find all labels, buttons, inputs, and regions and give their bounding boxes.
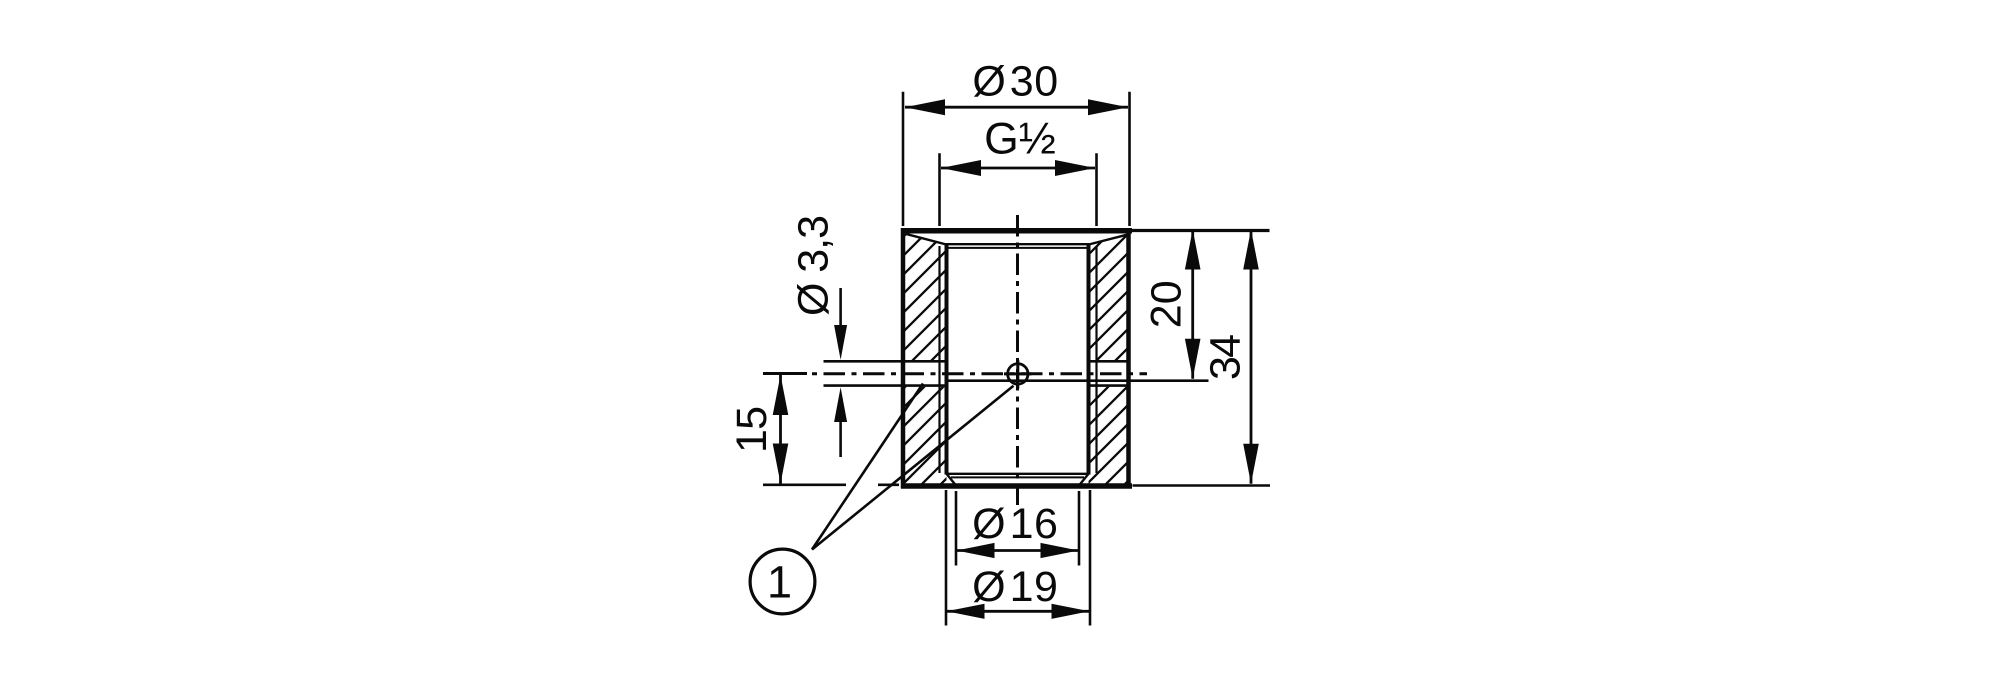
thread major line right (1095, 246, 1097, 473)
svg-text:34: 34 (1202, 334, 1250, 380)
balloon circle 1 (750, 549, 815, 614)
dimension O3,3: upper leader line (839, 288, 842, 328)
svg-text:G½: G½ (984, 115, 1056, 164)
thread major line left (938, 246, 940, 473)
bore left line (thread minor) (945, 245, 949, 475)
hole circle vertical crossbar (1016, 360, 1019, 389)
svg-text:Ø19: Ø19 (972, 563, 1058, 611)
hole center extension line to the right (947, 379, 1209, 382)
dimension O19: dimension line (947, 610, 1090, 613)
body top face (901, 228, 1132, 234)
cross-hole upper line left wall (824, 360, 949, 363)
dimension 15: bottom extension line (763, 483, 846, 486)
cross-hole lower line right wall (1089, 384, 1131, 387)
bottom recess line (951, 476, 1084, 478)
top chamfer diagonal left (906, 234, 946, 245)
dimension O3,3: lower arrowhead (834, 387, 847, 422)
dimension G1/2: dimension line (941, 167, 1095, 170)
top face extension line to the right (1132, 229, 1270, 232)
dimension 15: top tick at centerline (763, 372, 807, 375)
dimension 20: dimension line (1191, 230, 1194, 379)
bore right line (thread minor) (1087, 245, 1091, 475)
dimension O30: extension lines (902, 92, 905, 226)
dimension O19: extension lines (945, 490, 948, 626)
dimension O16: extension lines (955, 491, 958, 566)
top chamfer diagonal right (1089, 234, 1130, 245)
bottom thread end line (947, 473, 1089, 475)
balloon leader line to center hole (812, 386, 1014, 550)
dimension 34: dimension line (1250, 230, 1253, 484)
dimension O3,3: upper arrowhead (834, 325, 847, 360)
svg-text:1: 1 (767, 557, 792, 608)
bottom chamfer diagonal right (1079, 474, 1089, 486)
body bottom face (901, 483, 1132, 489)
hatching right wall (832, 228, 1609, 492)
svg-text:15: 15 (728, 406, 776, 453)
balloon leader line to wall hole (812, 384, 923, 550)
dimension 15: dimension line (779, 375, 782, 484)
bottom chamfer diagonal left (947, 474, 957, 486)
svg-text:Ø30: Ø30 (972, 58, 1058, 106)
dimension O30: arrowheads (905, 99, 945, 115)
hole position circle (1008, 364, 1028, 384)
horizontal centerline (809, 372, 1147, 375)
bottom face extension line to the right (1133, 484, 1271, 487)
dimension O16: dimension line (957, 549, 1079, 552)
dimension 15: arrowheads (773, 375, 789, 415)
dimension G1/2: extension lines (938, 153, 941, 226)
vertical centerline (1016, 215, 1019, 505)
thread start line top (948, 247, 1087, 249)
dimension 20: arrowheads (1185, 230, 1201, 270)
top chamfer edge line (946, 243, 1090, 245)
dimension O19: arrowheads (947, 604, 985, 619)
svg-text:Ø16: Ø16 (972, 500, 1058, 548)
right outer wall (1126, 228, 1131, 488)
dimension G1/2: arrowheads (941, 160, 981, 176)
hole circle horizontal crossbar (1004, 372, 1032, 375)
cross-hole lower line left wall (824, 384, 949, 387)
dimension O3,3: lower leader line (839, 420, 842, 457)
svg-text:20: 20 (1143, 280, 1191, 328)
dimension O30: dimension line (905, 106, 1128, 109)
left outer wall (901, 228, 906, 488)
dimension 34: arrowheads (1243, 230, 1259, 270)
svg-text:Ø 3,3: Ø 3,3 (790, 215, 838, 316)
cross-hole upper line right wall (1089, 360, 1131, 363)
dimension O16: arrowheads (957, 543, 995, 558)
hatching left wall (648, 228, 1235, 492)
